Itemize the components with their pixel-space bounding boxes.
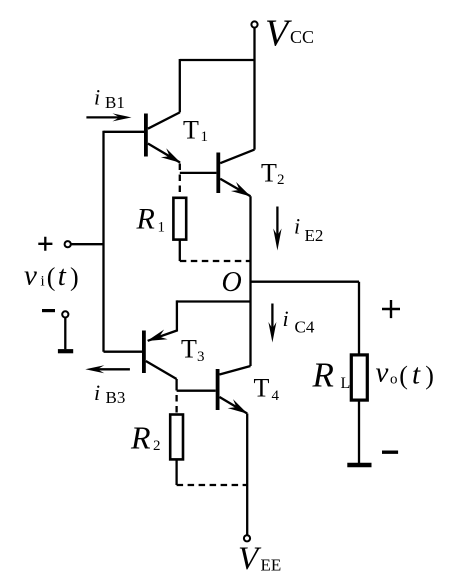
transistor T1 [144,112,181,162]
wire T1 collector riser [179,59,181,112]
resistor RL [351,355,367,400]
label iE2 [294,214,323,246]
svg-text:B1: B1 [105,93,125,112]
wire top rail T1 collector to VCC rail [180,59,255,61]
svg-text:4: 4 [272,388,280,404]
label T1 [183,116,208,146]
wire T3 collector to R2 (dashed) [175,384,177,415]
label vi(t) [24,260,79,293]
svg-text:i: i [94,85,100,110]
label node O [222,267,242,298]
wire T1 emitter to R1 (dashed) [179,164,181,198]
label T4 [254,374,280,405]
svg-text:): ) [425,361,434,390]
wire T2 base [180,172,217,174]
current arrow iC4 [268,304,276,343]
wire RL bottom [358,400,360,463]
label VCC [265,12,314,54]
svg-text:v: v [376,357,389,389]
label T2 [261,159,285,189]
svg-text:2: 2 [153,438,161,454]
label R1 [136,203,166,236]
svg-text:(: ( [399,361,408,390]
svg-text:o: o [390,372,398,388]
transistor T2 [216,150,254,197]
label T3 [181,335,205,366]
svg-text:EE: EE [261,556,282,575]
svg-text:): ) [70,262,79,291]
svg-text:R: R [130,420,151,456]
svg-text:(: ( [47,262,56,291]
wire + terminal to input vertical [71,243,104,245]
wire input vertical [102,131,104,352]
svg-text:T: T [254,374,270,403]
svg-text:T: T [181,335,197,364]
terminal + input [65,241,71,247]
label iB1 [94,85,125,113]
svg-text:R: R [312,356,334,395]
svg-text:O: O [222,267,242,298]
wire T3 collector stub [175,379,177,384]
svg-text:CC: CC [290,27,314,47]
terminal VEE [244,535,250,541]
svg-text:L: L [341,375,351,392]
current arrow iB1 [86,113,131,121]
label + output [382,300,400,318]
wire - terminal down [64,318,66,350]
wire R2 to VEE line (dashed) [177,484,248,486]
svg-text:R: R [136,203,155,236]
svg-text:t: t [58,260,67,292]
svg-text:3: 3 [197,349,205,365]
wire R1 to node O (dashed) [180,260,251,262]
svg-text:i: i [94,380,100,405]
wire RL top [358,282,360,355]
wire T3 base [104,351,143,353]
label VEE [238,541,281,577]
svg-text:T: T [183,116,199,145]
svg-text:i: i [294,214,300,239]
label iB3 [94,380,125,407]
transistor T3 [142,300,177,379]
wire T4 base [177,390,216,392]
label RL [312,356,351,395]
svg-text:B3: B3 [106,388,126,407]
resistor R1 [173,198,186,240]
svg-text:T: T [261,159,277,188]
ground input [58,349,73,353]
wire T1 base [104,131,145,133]
current arrow iE2 [273,207,281,251]
svg-text:i: i [283,306,289,331]
terminal - input [62,311,68,317]
wire T3 emitter horizontal [177,300,251,302]
svg-text:E2: E2 [305,226,324,245]
wire node O to RL [251,281,360,283]
label + input [38,237,52,251]
ground RL [347,463,371,467]
svg-text:1: 1 [158,220,166,236]
terminal VCC [251,21,257,27]
transistor T4 [216,366,251,414]
svg-text:2: 2 [277,172,285,188]
svg-text:t: t [412,359,421,391]
svg-text:V: V [265,12,292,54]
svg-text:C4: C4 [295,318,315,337]
wire T2 emitter down through node O [249,196,251,366]
current arrow iB3 [85,365,130,373]
svg-text:1: 1 [201,129,209,145]
wire R1 bottom [179,240,181,261]
svg-text:v: v [24,260,37,292]
label - input [42,309,55,312]
wire T4 emitter to VEE [246,414,248,536]
label - output [382,451,398,454]
resistor R2 [170,415,183,460]
label R2 [130,420,161,456]
label vo(t) [376,357,434,391]
wire VCC rail vertical [253,28,255,150]
svg-text:V: V [238,541,262,577]
wire R2 bottom [175,459,177,485]
svg-text:i: i [41,274,45,290]
label iC4 [283,306,315,337]
